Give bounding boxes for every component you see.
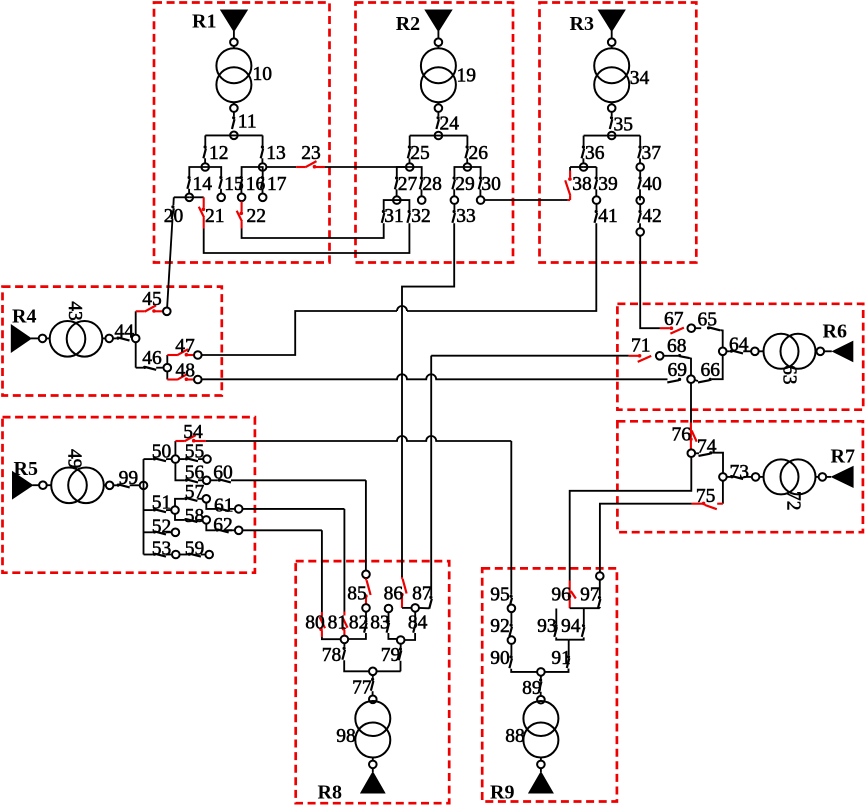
node 61 — [235, 505, 243, 513]
label 84 — [408, 613, 428, 634]
node — [39, 481, 47, 489]
svg-text:87: 87 — [412, 584, 432, 605]
switch 42 — [638, 210, 641, 223]
label 47 — [175, 336, 195, 357]
switch 81 (open) — [342, 612, 348, 636]
label 42 — [642, 206, 662, 227]
node — [39, 335, 47, 343]
wire 93 stub — [555, 609, 557, 625]
label 75 — [696, 486, 716, 507]
switch 54 (open) — [175, 435, 205, 442]
switch 77 — [371, 678, 374, 691]
switch 31 — [382, 210, 385, 223]
label 36 — [585, 143, 605, 164]
svg-text:17: 17 — [267, 174, 287, 195]
wire — [690, 358, 692, 375]
svg-text:76: 76 — [672, 424, 692, 445]
label 99 — [119, 468, 139, 489]
node 29 — [451, 196, 459, 204]
node 58 — [203, 516, 211, 524]
transformer 10 — [216, 48, 251, 102]
switch 17 — [261, 176, 264, 189]
node 53 — [172, 551, 180, 559]
wire — [229, 529, 235, 531]
switch 40 — [638, 176, 641, 189]
wire — [759, 350, 764, 352]
wire — [611, 112, 613, 116]
wire — [202, 311, 397, 355]
feeder triangle R7 — [831, 466, 854, 488]
switch 67 (open) — [660, 326, 684, 333]
wire — [583, 136, 585, 146]
wire — [695, 380, 698, 381]
transformer 43 — [50, 321, 103, 357]
wire 94 drop — [583, 608, 585, 624]
wire — [220, 189, 222, 198]
wire — [211, 479, 218, 481]
label 46 — [142, 348, 162, 369]
wire — [372, 691, 374, 695]
node 42 — [636, 228, 644, 236]
label 69 — [668, 360, 688, 381]
label 93 — [537, 616, 557, 637]
wire — [233, 102, 235, 104]
label 23 — [301, 143, 321, 164]
wire — [599, 607, 601, 608]
label 68 — [667, 336, 687, 357]
svg-text:43: 43 — [64, 301, 85, 321]
label 51 — [152, 493, 172, 514]
label 97 — [580, 585, 600, 606]
wire 69 drop — [690, 383, 692, 422]
wire — [33, 484, 39, 486]
wire — [166, 531, 171, 533]
wire — [189, 196, 203, 198]
svg-text:69: 69 — [668, 360, 688, 381]
wire — [743, 350, 751, 352]
switch 78 — [342, 647, 345, 660]
wire 76 link — [570, 457, 692, 580]
switch 68 — [678, 354, 690, 358]
node 30 — [477, 196, 485, 204]
svg-text:75: 75 — [696, 486, 716, 507]
wire — [639, 189, 641, 200]
svg-text:77: 77 — [352, 678, 372, 699]
svg-text:52: 52 — [152, 517, 172, 538]
node 26 — [464, 163, 472, 171]
wire — [104, 484, 106, 486]
wire — [599, 580, 601, 596]
svg-text:19: 19 — [457, 66, 477, 87]
label 76 — [672, 424, 692, 445]
switch 52 — [153, 530, 166, 534]
label 77 — [352, 678, 372, 699]
wire — [595, 189, 597, 200]
label 10 — [253, 64, 273, 85]
label 73 — [730, 462, 750, 483]
node — [752, 473, 760, 481]
wire — [639, 205, 641, 211]
wire bracket — [397, 167, 422, 177]
switch 20 — [171, 205, 174, 219]
svg-text:24: 24 — [440, 114, 460, 135]
switch 75 (open) — [692, 502, 723, 510]
wire — [166, 372, 168, 380]
label R6 — [823, 321, 847, 343]
switch 85 (open) — [364, 579, 371, 604]
label 16 — [246, 174, 266, 195]
wire — [510, 637, 512, 640]
switch 89 — [539, 678, 542, 691]
wire bracket — [242, 167, 263, 176]
label 48 — [176, 361, 196, 382]
svg-text:53: 53 — [152, 539, 172, 560]
node — [751, 348, 759, 356]
node 17 — [259, 194, 267, 202]
svg-text:R4: R4 — [12, 306, 36, 328]
svg-text:61: 61 — [214, 496, 234, 517]
switch 39 — [595, 176, 598, 189]
node 76 — [688, 449, 696, 457]
region R6 boundary — [617, 304, 863, 410]
node 97 — [596, 572, 604, 580]
wire — [144, 554, 153, 556]
label 39 — [598, 174, 618, 195]
label 60 — [213, 463, 233, 484]
wire — [727, 350, 730, 352]
wire — [664, 355, 678, 357]
svg-text:36: 36 — [585, 143, 605, 164]
label 82 — [349, 613, 369, 634]
wire — [570, 607, 600, 609]
wire 33 drop — [402, 223, 454, 577]
region R8 boundary — [296, 561, 450, 803]
wire — [540, 758, 542, 761]
node — [608, 104, 616, 112]
svg-text:83: 83 — [370, 613, 390, 634]
wire — [204, 158, 206, 167]
label 58 — [185, 506, 205, 527]
wire — [611, 46, 613, 48]
svg-text:R1: R1 — [192, 11, 216, 33]
wire — [174, 196, 190, 198]
node 59 — [205, 551, 213, 559]
wire — [485, 199, 568, 201]
node — [537, 696, 545, 704]
switch 57 — [184, 497, 197, 501]
label 54 — [183, 422, 203, 443]
svg-text:41: 41 — [598, 206, 618, 227]
switch 80 (open) — [319, 612, 325, 637]
node 78 — [341, 636, 349, 644]
svg-text:42: 42 — [642, 206, 662, 227]
wire — [144, 531, 153, 533]
svg-text:47: 47 — [175, 336, 195, 357]
switch 61 — [216, 507, 229, 511]
label 57 — [185, 482, 205, 503]
node 50 — [172, 455, 180, 463]
wire — [102, 337, 105, 339]
svg-text:23: 23 — [301, 143, 321, 164]
wire 61 drop — [343, 509, 345, 612]
svg-text:62: 62 — [213, 515, 233, 536]
wire — [136, 367, 143, 369]
svg-text:30: 30 — [481, 174, 501, 195]
switch 50 — [153, 457, 166, 461]
switch 97 — [598, 596, 601, 609]
wire — [639, 223, 641, 232]
switch 38 (open) — [565, 171, 572, 201]
label R8 — [318, 782, 342, 804]
wire bracket — [454, 167, 480, 177]
svg-text:57: 57 — [185, 482, 205, 503]
switch 64 — [730, 350, 743, 354]
switch 11 — [232, 116, 235, 129]
wire — [639, 136, 641, 146]
label 35 — [614, 115, 634, 136]
label R9 — [490, 782, 514, 804]
switch 26 — [465, 145, 468, 158]
label 56 — [185, 463, 205, 484]
wire — [545, 669, 569, 672]
node 83 — [385, 605, 393, 613]
label 53 — [152, 539, 172, 560]
label 67 — [664, 309, 684, 330]
svg-text:84: 84 — [408, 613, 428, 634]
wire — [233, 31, 235, 38]
wire — [466, 136, 468, 146]
switch 59 — [188, 553, 201, 557]
label 29 — [455, 174, 475, 195]
region R5 boundary — [3, 417, 255, 573]
label 14 — [193, 174, 213, 195]
transformer 88 — [523, 701, 558, 758]
switch 56 — [185, 479, 198, 483]
svg-text:98: 98 — [336, 726, 356, 747]
svg-text:12: 12 — [209, 143, 229, 164]
svg-text:59: 59 — [185, 539, 205, 560]
region R4 boundary — [3, 287, 222, 396]
wire — [569, 637, 584, 639]
wire — [31, 337, 38, 339]
wire — [144, 509, 153, 511]
svg-text:60: 60 — [213, 463, 233, 484]
switch 53 — [153, 553, 166, 557]
svg-text:66: 66 — [701, 360, 721, 381]
wire — [722, 481, 724, 504]
svg-text:13: 13 — [266, 143, 286, 164]
svg-text:29: 29 — [455, 174, 475, 195]
switch 95 — [509, 595, 512, 608]
switch 21 (open) — [199, 197, 205, 228]
label 94 — [561, 616, 581, 637]
wire — [396, 189, 398, 200]
label 65 — [698, 310, 718, 331]
label 17 — [267, 174, 287, 195]
wire 62 out — [243, 529, 322, 531]
wire — [453, 204, 455, 210]
svg-text:91: 91 — [551, 648, 571, 669]
wire — [510, 612, 512, 623]
label 37 — [642, 143, 662, 164]
switch 13 — [261, 145, 264, 158]
wire — [437, 102, 439, 104]
label 40 — [642, 174, 662, 195]
wire — [47, 484, 51, 486]
node 79 — [397, 636, 405, 644]
switch 12 — [203, 145, 206, 158]
svg-text:R6: R6 — [823, 321, 847, 343]
switch 58 — [184, 518, 197, 522]
label 27 — [398, 174, 418, 195]
wire — [180, 458, 185, 460]
wire — [135, 311, 137, 334]
svg-text:R3: R3 — [570, 13, 594, 35]
switch 37 — [638, 145, 641, 158]
switch 96 (open) — [568, 581, 576, 609]
svg-text:85: 85 — [347, 584, 367, 605]
switch 35 — [610, 116, 613, 129]
wire — [827, 476, 832, 478]
wire — [206, 524, 215, 530]
node 25 — [406, 163, 414, 171]
wire — [409, 158, 411, 167]
node — [230, 104, 238, 112]
wire — [639, 158, 641, 167]
node — [435, 104, 443, 112]
svg-text:49: 49 — [64, 449, 85, 469]
node — [369, 761, 377, 769]
node 40 — [636, 197, 644, 205]
wire — [611, 102, 613, 104]
svg-text:40: 40 — [642, 174, 662, 195]
svg-text:11: 11 — [238, 112, 257, 133]
wire — [569, 167, 571, 171]
wire — [584, 166, 597, 168]
wire — [639, 171, 641, 176]
switch 30 — [479, 176, 482, 189]
wire — [540, 676, 542, 679]
wire — [409, 136, 411, 146]
switch 45 (open) — [136, 305, 163, 312]
node — [608, 38, 616, 46]
switch 51 — [153, 508, 166, 512]
wire — [824, 350, 831, 352]
node 36 — [580, 163, 588, 171]
node 46 — [164, 364, 172, 372]
wire 61 out — [243, 508, 345, 510]
wire — [198, 458, 203, 460]
region R1 boundary — [154, 3, 330, 263]
transformer 49 — [51, 468, 104, 504]
switch 25 — [408, 145, 411, 158]
svg-text:78: 78 — [322, 645, 342, 666]
wire — [135, 343, 137, 368]
feeder triangle R2 — [424, 10, 452, 33]
label 64 — [729, 335, 749, 356]
wire 69-48 — [202, 374, 668, 379]
svg-text:94: 94 — [561, 616, 581, 637]
label R2 — [396, 13, 420, 35]
switch 24 — [436, 116, 439, 129]
svg-text:35: 35 — [614, 115, 634, 136]
label 28 — [422, 174, 442, 195]
switch 82 — [364, 620, 367, 633]
wire — [325, 166, 406, 168]
wire — [388, 613, 390, 620]
wire bracket — [189, 167, 221, 176]
node 45 — [163, 308, 171, 316]
feeder triangle R1 — [220, 10, 248, 33]
switch 83 — [387, 620, 390, 633]
wire 41-47 link — [407, 223, 596, 311]
label 45 — [142, 289, 162, 310]
wire — [453, 189, 455, 200]
wire — [197, 498, 202, 500]
wire — [372, 675, 374, 678]
wire — [261, 158, 263, 167]
svg-text:14: 14 — [193, 174, 213, 195]
label 96 — [551, 585, 571, 606]
label 78 — [322, 645, 342, 666]
label 38 — [572, 174, 592, 195]
node — [435, 132, 443, 140]
wire — [479, 189, 481, 200]
label 41 — [598, 206, 618, 227]
switch 48 (open) — [167, 374, 193, 381]
node 95 — [508, 605, 516, 613]
wire — [166, 509, 171, 511]
node 52 — [172, 529, 180, 537]
svg-text:31: 31 — [384, 206, 404, 227]
svg-text:54: 54 — [183, 422, 203, 443]
wire — [437, 31, 439, 38]
bus wire — [205, 134, 262, 136]
wire — [511, 669, 537, 672]
transformer 98 — [355, 701, 390, 758]
node 16 — [238, 194, 246, 202]
label 13 — [266, 143, 286, 164]
switch 62 — [216, 528, 229, 532]
wire — [198, 479, 203, 481]
label 26 — [469, 143, 489, 164]
wire — [402, 607, 411, 609]
feeder triangle R5 — [12, 471, 34, 500]
label 62 — [213, 515, 233, 536]
wire — [267, 166, 296, 168]
node — [537, 761, 545, 769]
svg-text:46: 46 — [142, 348, 162, 369]
wire — [175, 499, 184, 506]
node 71 — [656, 352, 664, 360]
wire 87 drop — [430, 356, 432, 596]
label R4 — [12, 306, 36, 328]
svg-text:R7: R7 — [831, 446, 855, 468]
wire — [540, 692, 542, 696]
switch 47 (open) — [167, 349, 193, 356]
region R9 boundary — [482, 568, 617, 801]
svg-text:65: 65 — [698, 310, 718, 331]
wire — [421, 189, 423, 200]
svg-text:80: 80 — [305, 613, 325, 634]
wire — [568, 640, 570, 656]
label 74 — [697, 436, 717, 457]
wire — [437, 112, 439, 116]
wire — [419, 607, 429, 609]
label 50 — [152, 442, 172, 463]
label 86 — [384, 584, 404, 605]
svg-text:R8: R8 — [318, 782, 342, 804]
